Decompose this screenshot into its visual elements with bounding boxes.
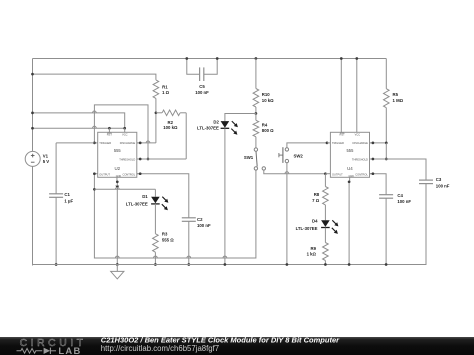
node output-D1 junction (93, 188, 96, 191)
wire R2 to threshold (185, 113, 187, 159)
wire rail to U2 RST pin (33, 127, 125, 129)
svg-text:R2: R2 (168, 120, 174, 125)
node U4 output (324, 172, 327, 175)
svg-text:D1: D1 (142, 194, 148, 199)
svg-text:http://circuitlab.com/ch6b57ja: http://circuitlab.com/ch6b57ja8fgf7 (101, 344, 219, 353)
node U2 discharge (139, 142, 142, 145)
wire U4 VCC to rail (356, 59, 358, 133)
svg-text:THRESHOLD: THRESHOLD (119, 157, 135, 161)
resistor R2 (156, 112, 162, 114)
svg-text:10 kΩ: 10 kΩ (262, 98, 274, 103)
svg-text:SW1: SW1 (244, 155, 254, 160)
svg-text:C2: C2 (197, 217, 203, 222)
node VCC pin (123, 127, 126, 130)
wire U4 control to C4 (370, 174, 387, 195)
svg-text:TRIGGER: TRIGGER (332, 141, 344, 145)
wire R1 to node (155, 98, 157, 112)
wire discharge-threshold tie (385, 143, 387, 159)
wire U2 output to SW1 (94, 170, 256, 258)
chip U4 (555 timer) (330, 132, 369, 177)
svg-text:CONTROL: CONTROL (355, 173, 368, 177)
resistor R9 (323, 243, 329, 261)
svg-text:TRIGGER: TRIGGER (99, 141, 111, 145)
resistor R5 (385, 59, 387, 89)
svg-text:R3: R3 (162, 232, 168, 237)
svg-text:C5: C5 (199, 84, 205, 89)
svg-text:100 kΩ: 100 kΩ (163, 125, 178, 130)
svg-text:LTL-307EE: LTL-307EE (197, 125, 219, 130)
wire discharge to R2 node (137, 142, 156, 144)
svg-text:V1: V1 (43, 154, 49, 159)
svg-text:C4: C4 (397, 193, 403, 198)
node R1-R2-discharge (155, 111, 158, 114)
voltage source V1 (25, 151, 40, 166)
svg-text:R1: R1 (162, 84, 168, 89)
svg-text:1 Ω: 1 Ω (162, 90, 170, 95)
svg-text:VCC: VCC (122, 133, 128, 137)
ground (116, 265, 118, 272)
svg-text:100 nF: 100 nF (397, 199, 411, 204)
wire rail to U2 VCC pin (33, 113, 125, 128)
wire crossover hops (93, 111, 289, 258)
svg-text:RST: RST (340, 133, 346, 137)
svg-text:LTL-307EE: LTL-307EE (126, 202, 148, 207)
svg-text:THRESHOLD: THRESHOLD (352, 157, 368, 161)
svg-text:1 kΩ: 1 kΩ (307, 252, 317, 257)
switch SW1 (254, 148, 257, 151)
svg-text:100 nF: 100 nF (195, 90, 209, 95)
wire U4 discharge to R5 (370, 142, 387, 144)
diode D4 (LED) (324, 205, 326, 220)
capacitor C5 (187, 59, 200, 75)
node U4 trigger (326, 142, 329, 145)
svg-text:800 Ω: 800 Ω (262, 128, 274, 133)
wire RST stub (108, 128, 110, 132)
svg-text:U2: U2 (114, 166, 120, 171)
svg-text:U4: U4 (347, 166, 353, 171)
resistor R3 (154, 204, 156, 234)
svg-text:100 nF: 100 nF (197, 223, 211, 228)
svg-text:R10: R10 (262, 92, 270, 97)
resistor R1 (153, 80, 159, 99)
svg-text:DISCHARGE: DISCHARGE (120, 141, 136, 145)
wire U2 threshold (137, 158, 186, 160)
resistor R10 (255, 57, 258, 60)
svg-text:SW2: SW2 (294, 153, 304, 158)
wire U4 RST to rail (340, 59, 342, 133)
logo resistor-diode glyph (17, 348, 43, 353)
node loop-threshold junction (147, 158, 150, 161)
svg-text:5 V: 5 V (43, 159, 50, 164)
diode D1 (LED) (154, 189, 156, 196)
capacitor C3 (419, 179, 433, 181)
node U2 output (93, 172, 96, 175)
svg-text:C3: C3 (436, 177, 442, 182)
capacitor C2 (137, 174, 189, 218)
svg-text:R9: R9 (311, 246, 317, 251)
node U2 trigger (93, 142, 96, 145)
svg-text:OUTPUT: OUTPUT (99, 173, 110, 177)
wire rail to R1 (33, 74, 156, 80)
wire VCC top rail (33, 58, 387, 60)
svg-text:D2: D2 (213, 119, 219, 124)
wire VCC stub (124, 128, 126, 132)
svg-text:555: 555 (347, 148, 355, 153)
wire output to D1 (94, 188, 155, 190)
banner bar (0, 337, 474, 355)
wire C1 to trigger (56, 142, 94, 144)
svg-text:VCC: VCC (355, 133, 361, 137)
svg-text:C1: C1 (64, 192, 70, 197)
svg-text:GND: GND (348, 175, 354, 178)
diode D2 (LED) (225, 114, 256, 122)
svg-text:CONTROL: CONTROL (123, 173, 136, 177)
ground rail (33, 184, 427, 265)
svg-text:DISCHARGE: DISCHARGE (352, 141, 368, 145)
op-amp U2 (555 timer) (98, 132, 137, 177)
capacitor C1 (55, 143, 57, 194)
switch SW2 (287, 143, 327, 148)
wire U4 threshold to C3 (370, 159, 427, 180)
wire left supply rail lower (32, 166, 34, 265)
svg-text:R5: R5 (393, 92, 399, 97)
svg-text:LTL-307EE: LTL-307EE (296, 226, 318, 231)
svg-text:D4: D4 (312, 218, 318, 223)
svg-text:LAB: LAB (58, 345, 81, 355)
svg-text:555 Ω: 555 Ω (162, 238, 174, 243)
svg-text:R4: R4 (262, 122, 268, 127)
svg-text:1 MΩ: 1 MΩ (393, 98, 404, 103)
node R10-R4-D2 (255, 112, 258, 115)
resistor R4 (255, 114, 257, 121)
wire SW1 B to U4 output (264, 170, 326, 174)
svg-text:7 Ω: 7 Ω (312, 198, 320, 203)
wire U2 GND to ground (116, 182, 118, 265)
svg-text:555: 555 (114, 148, 122, 153)
svg-text:GND: GND (116, 175, 122, 178)
svg-text:100 nF: 100 nF (436, 183, 450, 188)
wire U4 GND to ground (348, 182, 350, 265)
svg-text:R8: R8 (314, 192, 320, 197)
svg-text:1 µF: 1 µF (64, 198, 73, 203)
capacitor C4 (379, 194, 393, 196)
wire left supply rail upper (32, 59, 34, 152)
node RST pin (108, 127, 111, 130)
wire trigger-threshold loop (94, 105, 148, 159)
svg-text:OUTPUT: OUTPUT (332, 173, 343, 177)
svg-text:RST: RST (107, 133, 113, 137)
resistor R8 (324, 174, 326, 187)
